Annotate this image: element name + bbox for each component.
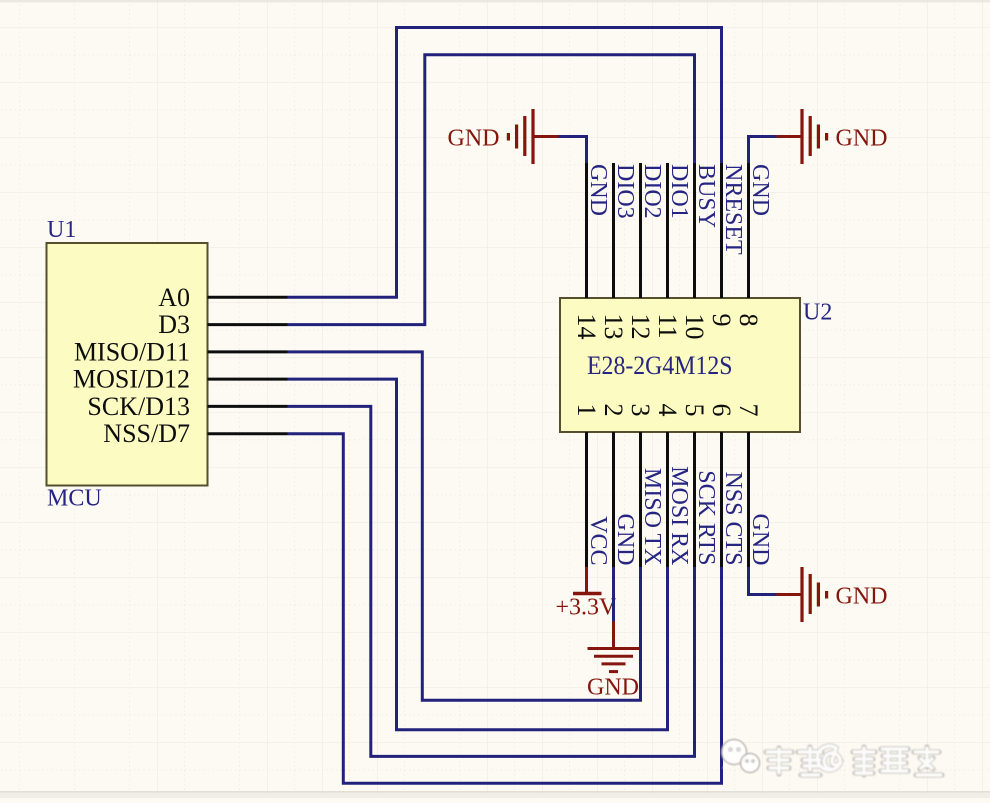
pin name MOSI/D12 bbox=[73, 365, 190, 394]
pin U1 A0 bbox=[208, 296, 288, 299]
pin U2 6 bbox=[720, 432, 723, 567]
pin U2 12 bbox=[639, 163, 642, 298]
svg-text:GND: GND bbox=[747, 164, 773, 216]
net label DIO3 bbox=[612, 164, 638, 219]
net label SCK RTS bbox=[693, 470, 719, 565]
pin U1 MISO/D11 bbox=[208, 350, 288, 353]
svg-text:GND: GND bbox=[747, 514, 773, 566]
pin U1 NSS/D7 bbox=[208, 432, 288, 435]
svg-text:MOSI/D12: MOSI/D12 bbox=[73, 365, 190, 394]
svg-text:DIO2: DIO2 bbox=[639, 164, 665, 219]
power ground GND earth bottom bbox=[587, 621, 640, 701]
svg-text:3: 3 bbox=[626, 404, 655, 417]
svg-text:GND: GND bbox=[448, 125, 500, 151]
net label DIO1 bbox=[666, 164, 692, 219]
svg-text:DIO1: DIO1 bbox=[666, 164, 692, 219]
wire SCK/D13 to SCK RTS bbox=[288, 406, 695, 756]
net label MISO TX bbox=[639, 468, 665, 566]
pin U2 5 bbox=[693, 432, 696, 567]
svg-text:5: 5 bbox=[680, 404, 709, 417]
svg-text:MCU: MCU bbox=[47, 486, 102, 512]
wire MISO/D11 to MISO TX bbox=[288, 352, 641, 700]
net label GND pin14 bbox=[585, 164, 611, 216]
pin number 2 bbox=[599, 404, 628, 417]
pin number 3 bbox=[626, 404, 655, 417]
watermark zhihu bbox=[722, 740, 943, 776]
svg-text:A0: A0 bbox=[158, 283, 190, 312]
pin name D3 bbox=[158, 310, 190, 339]
svg-text:NSS CTS: NSS CTS bbox=[720, 471, 746, 565]
module U2 body bbox=[560, 298, 800, 432]
svg-text:MISO TX: MISO TX bbox=[639, 468, 665, 566]
svg-text:GND: GND bbox=[836, 125, 888, 151]
pin name MISO/D11 bbox=[74, 337, 190, 366]
wire pin14 to left GND bbox=[559, 137, 587, 164]
svg-text:1: 1 bbox=[572, 404, 601, 417]
pin number 7 bbox=[734, 404, 763, 417]
pin U2 8 bbox=[747, 163, 750, 298]
net label GND pin2 bbox=[612, 514, 638, 566]
pin number 9 bbox=[707, 314, 736, 327]
power port +3.3V bbox=[556, 567, 618, 621]
pin name A0 bbox=[158, 283, 190, 312]
power ground GND left bbox=[448, 109, 559, 164]
comment E28-2G4M12S bbox=[587, 351, 733, 380]
svg-text:6: 6 bbox=[707, 404, 736, 417]
svg-text:U2: U2 bbox=[803, 300, 832, 326]
pin U2 11 bbox=[666, 163, 669, 298]
net label GND pin7 bbox=[747, 514, 773, 566]
pin U2 3 bbox=[639, 432, 642, 567]
pin number 8 bbox=[734, 314, 763, 327]
svg-text:GND: GND bbox=[612, 514, 638, 566]
wire A0 to NRESET bbox=[288, 28, 722, 298]
svg-text:NRESET: NRESET bbox=[720, 164, 746, 255]
pin number 5 bbox=[680, 404, 709, 417]
svg-text:NSS/D7: NSS/D7 bbox=[103, 419, 190, 448]
svg-text:MOSI RX: MOSI RX bbox=[666, 466, 692, 565]
wire MOSI/D12 to MOSI RX bbox=[288, 379, 668, 730]
svg-text:11: 11 bbox=[653, 314, 682, 339]
pin U2 1 bbox=[585, 432, 588, 567]
svg-text:9: 9 bbox=[707, 314, 736, 327]
net label NSS CTS bbox=[720, 471, 746, 565]
designator U2 bbox=[803, 300, 832, 326]
pin U2 14 bbox=[585, 163, 588, 298]
designator U1 bbox=[47, 217, 76, 243]
pin number 6 bbox=[707, 404, 736, 417]
net label GND pin8 bbox=[747, 164, 773, 216]
svg-text:8: 8 bbox=[734, 314, 763, 327]
svg-text:U1: U1 bbox=[47, 217, 76, 243]
pin U2 10 bbox=[693, 163, 696, 298]
MCU U1 bbox=[47, 243, 208, 486]
svg-text:12: 12 bbox=[626, 314, 655, 340]
pin number 1 bbox=[572, 404, 601, 417]
pin number 13 bbox=[599, 314, 628, 340]
pin U1 SCK/D13 bbox=[208, 405, 288, 408]
wire D3 to BUSY bbox=[288, 55, 695, 325]
wire pin8 to right GND bbox=[749, 137, 777, 164]
wire NSS/D7 to NSS CTS bbox=[288, 434, 722, 784]
svg-text:GND: GND bbox=[836, 583, 888, 609]
svg-text:GND: GND bbox=[585, 164, 611, 216]
svg-text:MISO/D11: MISO/D11 bbox=[74, 337, 190, 366]
pin number 12 bbox=[626, 314, 655, 340]
pin U2 2 bbox=[612, 432, 615, 567]
svg-text:14: 14 bbox=[572, 314, 601, 340]
pin name NSS/D7 bbox=[103, 419, 190, 448]
pin U1 MOSI/D12 bbox=[208, 378, 288, 381]
svg-text:+3.3V: +3.3V bbox=[556, 595, 618, 621]
svg-text:GND: GND bbox=[587, 675, 639, 701]
svg-text:10: 10 bbox=[680, 314, 709, 340]
net label NRESET bbox=[720, 164, 746, 255]
pin U2 4 bbox=[666, 432, 669, 567]
svg-text:DIO3: DIO3 bbox=[612, 164, 638, 219]
pin number 10 bbox=[680, 314, 709, 340]
power ground GND lower right bbox=[777, 567, 888, 622]
pin name SCK/D13 bbox=[87, 392, 190, 421]
pin number 14 bbox=[572, 314, 601, 340]
svg-text:13: 13 bbox=[599, 314, 628, 340]
svg-text:4: 4 bbox=[653, 404, 682, 417]
pin U2 7 bbox=[747, 432, 750, 567]
pin U1 D3 bbox=[208, 323, 288, 326]
svg-text:SCK/D13: SCK/D13 bbox=[87, 392, 190, 421]
svg-text:E28-2G4M12S: E28-2G4M12S bbox=[587, 351, 733, 380]
power ground GND top right bbox=[777, 109, 888, 164]
net label VCC bbox=[585, 516, 611, 565]
net label DIO2 bbox=[639, 164, 665, 219]
comment MCU bbox=[47, 486, 102, 512]
svg-text:2: 2 bbox=[599, 404, 628, 417]
pin U2 9 bbox=[720, 163, 723, 298]
pin number 4 bbox=[653, 404, 682, 417]
net label BUSY bbox=[693, 164, 719, 228]
svg-text:BUSY: BUSY bbox=[693, 164, 719, 228]
pin U2 13 bbox=[612, 163, 615, 298]
svg-text:7: 7 bbox=[734, 404, 763, 417]
net label MOSI RX bbox=[666, 466, 692, 565]
svg-text:SCK RTS: SCK RTS bbox=[693, 470, 719, 565]
wire pin7 to lower right GND bbox=[749, 567, 777, 595]
svg-text:D3: D3 bbox=[158, 310, 190, 339]
pin number 11 bbox=[653, 314, 682, 339]
wire pin2 to earth ground bbox=[612, 567, 615, 621]
svg-text:VCC: VCC bbox=[585, 516, 611, 565]
